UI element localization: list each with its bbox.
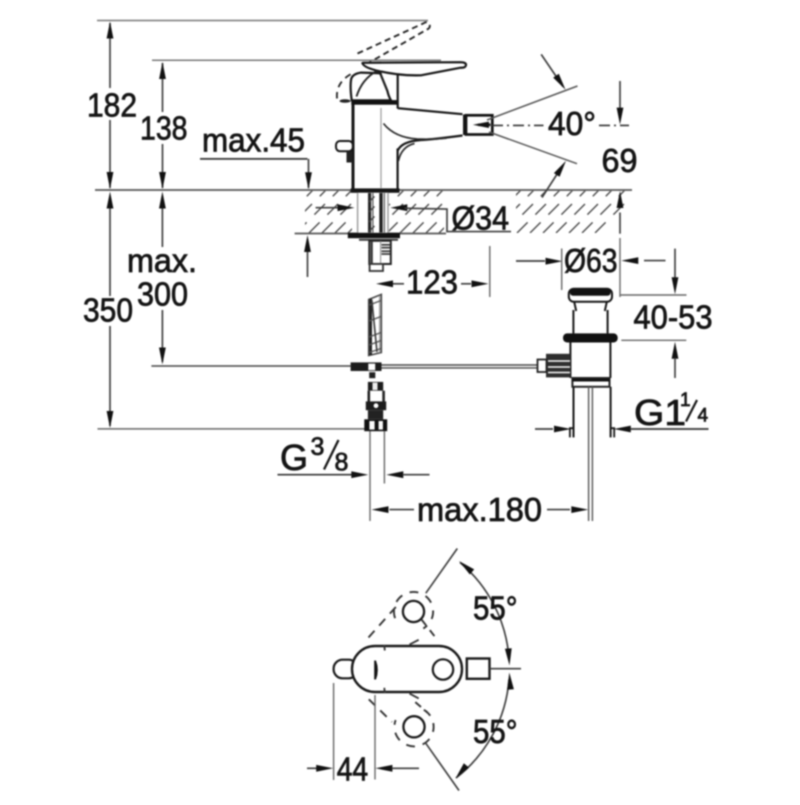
dimension 69 (619, 81, 621, 108)
svg-text:max.: max. (127, 242, 197, 279)
spray centerline (dash-dot) (492, 124, 544, 126)
dimension 350 (109, 207, 111, 426)
rod cross fitting (351, 362, 382, 371)
55deg bottom arc (456, 680, 509, 778)
pop-up rod knob (546, 354, 570, 378)
reference line supply level (98, 428, 366, 430)
deck bottom line (295, 233, 446, 235)
aerator flow arrow (478, 124, 491, 127)
dimension 123 (376, 280, 393, 287)
pop-up rod right (double) (382, 364, 539, 366)
rod coupler (538, 360, 547, 373)
hub inner curve (357, 71, 378, 97)
bottom lug neck tick (410, 694, 419, 699)
dimension G1 1/4 (535, 428, 553, 430)
faucet base plate (351, 188, 400, 192)
bottom lug dashed circle (394, 710, 433, 747)
top lug tangent dashes left (369, 604, 399, 638)
side knob shadow (347, 152, 353, 163)
shank in deck (357, 193, 388, 233)
washer line (359, 239, 398, 241)
base pill outline (352, 646, 462, 692)
hex nut (369, 241, 391, 264)
waste upper body (572, 310, 574, 333)
waste seal ring (563, 333, 618, 342)
pill bottom tick (383, 688, 386, 693)
hub base shadow (340, 99, 351, 103)
svg-text:1: 1 (680, 390, 691, 411)
pop-up waste cap (569, 289, 612, 302)
faucet lever raised (dashed) (358, 22, 430, 64)
lever swing arc (dashed) (337, 74, 351, 99)
svg-text:44: 44 (337, 751, 369, 788)
lower angle leader (542, 167, 562, 198)
aerator (466, 115, 492, 134)
faucet body right edge lower (397, 149, 399, 190)
hub pivot line (381, 74, 388, 90)
waste lower body (573, 387, 575, 438)
top lug neck tick (410, 640, 419, 645)
svg-text:55°: 55° (473, 713, 518, 750)
svg-text:350: 350 (83, 292, 133, 329)
svg-text:40-53: 40-53 (634, 299, 713, 336)
spout top edge (398, 108, 463, 114)
bottom lug hole (403, 716, 424, 737)
dimension 44 (333, 683, 335, 780)
Ø34 leader (405, 208, 512, 231)
extension line spout outlet (489, 246, 491, 297)
side knob bottom view (334, 660, 358, 679)
pop-up rod left (151, 365, 350, 367)
top lug tangent dashes right (422, 620, 436, 637)
waste neck (574, 302, 576, 311)
svg-text:300: 300 (137, 276, 188, 313)
supply hole mark (374, 661, 378, 680)
supply stub G3/8 (364, 382, 387, 431)
dimension max.300 (161, 207, 163, 362)
dimension G3/8 arrows (278, 474, 353, 476)
extension line left of max.180 (369, 431, 371, 521)
svg-text:max.180: max.180 (417, 491, 542, 528)
dimension 138 (162, 63, 164, 188)
svg-text:40°: 40° (548, 105, 596, 142)
waste inner pipe (588, 387, 590, 521)
svg-text:G: G (280, 437, 308, 478)
svg-text:55°: 55° (473, 590, 518, 627)
fitting lower block (369, 372, 375, 378)
backnut bar (348, 233, 400, 238)
svg-text:4: 4 (698, 406, 709, 427)
55deg top arc (460, 563, 509, 659)
top lug dashed circle (394, 592, 433, 629)
centerline right (490, 668, 522, 670)
svg-text:123: 123 (406, 264, 458, 301)
deck hatching (270, 190, 638, 233)
reference line top (182) (97, 20, 428, 22)
faucet solid lever (362, 62, 466, 75)
55deg bottom leader (426, 743, 459, 790)
svg-text:138: 138 (140, 110, 188, 147)
handle hub (351, 73, 391, 101)
label box for Ø34 (444, 193, 516, 232)
extension line G3/8 right (383, 431, 385, 484)
nut step (370, 264, 383, 271)
svg-text:G1: G1 (634, 392, 686, 433)
dimension Ø63 (516, 260, 545, 262)
cartridge bar (351, 100, 397, 105)
svg-text:max.45: max.45 (202, 122, 305, 159)
top lug hole (403, 601, 424, 622)
svg-text:182: 182 (87, 87, 137, 124)
spout inner fillet (398, 144, 414, 162)
side knob (336, 141, 353, 151)
threaded rod (369, 294, 382, 355)
faucet inner line (380, 108, 382, 188)
spout inner curve (384, 124, 447, 140)
bottom lug tangent dashes right (415, 702, 427, 713)
svg-text:8: 8 (335, 449, 349, 477)
dimension max.180 (372, 506, 389, 513)
svg-text:69: 69 (602, 142, 638, 179)
55deg top leader (426, 549, 458, 594)
faucet body right edge upper (397, 75, 399, 109)
faucet body left edge (352, 105, 355, 190)
dimension Ø34 arrows (316, 207, 338, 209)
spout end cap (463, 115, 465, 136)
aerator bottom view (467, 659, 490, 679)
pill top tick (383, 645, 386, 650)
svg-text:Ø63: Ø63 (564, 242, 618, 279)
svg-text:3: 3 (311, 433, 325, 461)
deck top line (95, 189, 632, 191)
waste mid body (569, 343, 571, 379)
spray upper ray (487, 86, 578, 120)
waste thread ticks (570, 428, 574, 437)
spout bottom edge (398, 136, 463, 151)
dimension 40-53 (674, 249, 676, 279)
bottom lug tangent dashes left (369, 699, 392, 722)
spray lower ray (489, 132, 577, 164)
waste coupling (572, 378, 609, 387)
upper angle leader (541, 54, 563, 86)
reference line 138 (152, 59, 441, 61)
cartridge circle (433, 659, 453, 679)
svg-text:Ø34: Ø34 (452, 200, 510, 237)
dimension 182 (109, 23, 111, 188)
